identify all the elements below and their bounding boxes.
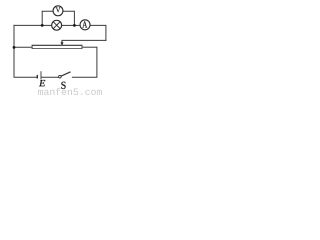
wire: right upper vertical (to slider) [105, 25, 107, 41]
wire: left vertical rail [13, 25, 15, 77]
ammeter letter A [82, 21, 87, 27]
wire: top-left horizontal (left rail to parallel junction) [14, 24, 43, 26]
wire: ammeter to right upper rail [90, 24, 106, 26]
switch S: pivot circle [59, 75, 62, 78]
wire: lamp to right junction [62, 24, 75, 26]
node: left junction of parallel section [41, 24, 44, 27]
voltmeter letter V [56, 7, 61, 12]
wire: right junction to ammeter [74, 24, 80, 26]
wire: slider horizontal feed [62, 39, 106, 41]
wire: left junction up to voltmeter branch [41, 11, 43, 25]
wire: slider vertical drop [61, 40, 63, 43]
label S [61, 82, 65, 89]
wire: switch to bottom-right corner [72, 76, 98, 78]
battery E: long thin plate (positive) [40, 71, 42, 79]
watermark manfen5.com [38, 88, 102, 95]
wire: voltmeter branch right segment [63, 10, 75, 12]
ammeter A (circle) [80, 20, 90, 30]
voltmeter V (circle) [53, 6, 63, 16]
node: right junction of parallel section [73, 24, 76, 27]
wire: battery to switch [41, 76, 59, 78]
wire: lamp branch left segment [42, 24, 52, 26]
resistor R (rheostat box) [32, 45, 83, 49]
slider arrowhead onto rheostat [60, 42, 63, 45]
wire: rheostat right terminal to right lower rail [82, 46, 97, 48]
wire: left rail to rheostat left terminal [14, 46, 33, 48]
wire: voltmeter branch left segment [42, 10, 54, 12]
lamp L (circle with X) [52, 20, 62, 30]
label E [39, 80, 45, 86]
wire: bottom left (rail to battery) [14, 76, 38, 78]
wire: right lower vertical rail [96, 47, 98, 78]
lamp cross stroke 1 [53, 22, 60, 29]
wire: right junction vertical drop [73, 11, 75, 26]
lamp cross stroke 2 [53, 22, 60, 29]
battery E: short thick plate (negative) [36, 75, 38, 79]
node: junction on left rail (rheostat tap) [13, 46, 16, 49]
switch S: lever [61, 72, 71, 76]
